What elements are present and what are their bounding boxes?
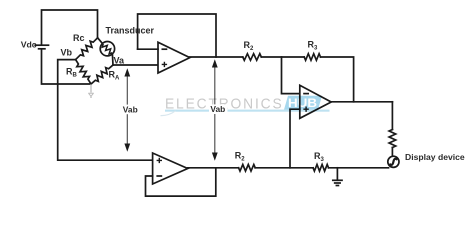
resistor R3 (top feedback) [304,54,320,61]
label Vab (left arrow) [121,104,140,114]
op-amp U1 triangle [158,42,190,73]
wire: node Vb left and down to lower op-amp + input [58,60,153,161]
wire: node Va to upper op-amp + input [113,64,158,66]
svg-text:Display device: Display device [405,152,465,162]
wire: R2 bottom to R3 bottom [255,167,313,169]
display device sine symbol [390,159,396,165]
transducer circle [100,42,114,56]
battery Vdc long plate [35,44,48,46]
arrow Vab (bridge output, double-headed) [124,68,130,151]
battery Vdc short plate [39,48,45,50]
wire: transducer circle to node Va [111,54,114,65]
wire: battery top loop to bridge top [42,10,98,44]
resistor R3 (bottom, to ground) [313,165,328,172]
resistor RB (bridge arm) [76,60,91,84]
ground stem at R3 [336,168,338,180]
op-amp U1 plus symbol [162,62,167,67]
wire: down from output corner to series resistor [391,102,393,130]
op-amp U3 plus symbol [303,107,308,112]
svg-text:HUB: HUB [288,98,317,110]
op-amp U1 output wire to R2 [190,56,243,58]
wire: R3 bottom to ground node and display device [329,167,389,169]
display device circle [388,156,399,167]
op-amp U3 output wire [331,101,392,103]
op-amp U3 triangle [300,85,331,118]
svg-text:Vdc: Vdc [21,40,37,50]
ground (bridge, gray) symbol [88,93,94,97]
svg-text:Vab: Vab [210,104,225,114]
op-amp U1 minus symbol [162,48,168,50]
resistor R2 (top) [243,54,261,61]
svg-text:Vab: Vab [123,104,138,114]
resistor R2 (bottom) [239,165,256,172]
arrow Vab (buffered output, double-headed) [212,59,218,160]
op-amp U2 minus symbol [156,175,162,177]
transducer zigzag inside circle [102,45,111,54]
resistor Rc (bridge arm) [76,38,98,60]
op-amp U2 plus symbol [157,158,162,163]
resistor (series, vertical) [389,130,396,148]
svg-text:Rc: Rc [73,33,85,43]
svg-text:Transducer: Transducer [106,26,155,36]
transducer element: wire into circle [98,38,103,44]
op-amp U1 feedback loop wire [138,14,216,57]
svg-text:Va: Va [114,56,126,66]
wire: R2 to R3 with node to U3 inverting input [261,56,304,58]
op-amp U2 feedback loop wire [146,168,216,196]
wire: U3 non-inverting input riser from lower rail [290,109,300,168]
watermark ELECTRONICS HUB logo [161,96,330,116]
wire: resistor to display device [391,148,393,157]
ground hatch lines [333,179,342,181]
op-amp U3 minus symbol [303,93,309,95]
wire: R3 to feedback down into U3 output [321,57,354,102]
svg-text:Vb: Vb [61,48,73,58]
resistor RA (bridge arm) [91,65,113,84]
label Vab (right arrow) [209,104,228,114]
wire: node down to U3 inverting input [282,57,300,94]
wire: battery bottom to bridge bottom node [42,49,92,84]
ground (bridge, gray) stem [90,84,92,93]
op-amp U2 triangle [153,153,188,184]
wire: U1 inverting input [138,48,158,50]
lower rail wire: U2 output to display device [188,167,239,169]
